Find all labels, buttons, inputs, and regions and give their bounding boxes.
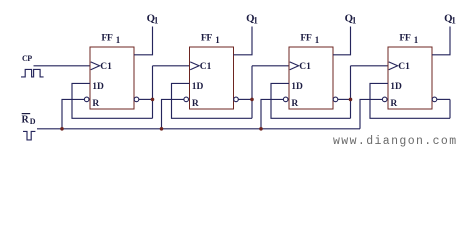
svg-text:D: D: [30, 117, 36, 126]
wire Q-bar of U2 to its junction: [238, 98, 252, 100]
wire Q output of U1 up to node Q1: [134, 27, 153, 55]
flip-flop U2 box outline: [190, 47, 234, 109]
wire Q-bar vertical of U1 feeding next clock and own 1D: [152, 66, 154, 119]
svg-text:R: R: [390, 99, 397, 109]
junction dot at Q-bar node of U3: [349, 98, 353, 102]
svg-text:1: 1: [215, 35, 220, 45]
svg-text:FF: FF: [300, 33, 311, 44]
svg-text:FF: FF: [399, 33, 410, 44]
svg-text:FF: FF: [101, 33, 112, 44]
wire RD-bar horizontal reset bus: [37, 128, 360, 130]
inversion bubble on Q-bar output of U2: [234, 97, 239, 102]
svg-text:1D: 1D: [291, 82, 303, 92]
inversion bubble on R input of U1: [84, 97, 89, 102]
svg-text:1D: 1D: [390, 82, 402, 92]
svg-text:C1: C1: [200, 62, 212, 72]
RD-bar negative pulse symbol: [23, 131, 35, 140]
svg-text:1: 1: [116, 35, 121, 45]
pin C1 clock chevron of U3: [290, 62, 299, 70]
wire R input of U4 down to reset bus: [360, 99, 382, 128]
svg-text:1: 1: [352, 15, 357, 25]
svg-text:1: 1: [154, 15, 159, 25]
junction dot on reset bus at U3: [259, 127, 263, 131]
wire Q-bar vertical of U3 feeding next clock and own 1D: [350, 66, 352, 119]
wire CP to FF1 clock input: [34, 65, 91, 67]
junction dot on reset bus at U2: [160, 127, 164, 131]
inversion bubble on R input of U3: [283, 97, 288, 102]
wire feedback Q-bar of U1 to 1D input of U1: [72, 83, 153, 118]
wire Q output of U3 up to node Q1: [333, 27, 351, 55]
svg-text:CP: CP: [22, 54, 32, 63]
inversion bubble on R input of U4: [382, 97, 387, 102]
svg-text:www.diangon.com: www.diangon.com: [333, 135, 458, 148]
junction dot at Q-bar node of U1: [151, 98, 155, 102]
wire Q-bar of U4 to its junction: [437, 98, 450, 100]
flip-flop U3 box outline: [289, 47, 333, 109]
flip-flop U4 box outline: [388, 47, 432, 109]
wire Q-bar vertical of U4 down to feedback: [449, 99, 451, 118]
wire Q output of U4 up to node Q1: [432, 27, 450, 55]
junction dot at Q-bar node of U2: [250, 98, 254, 102]
CP clock pulse waveform symbol: [21, 69, 44, 77]
pin C1 clock chevron of U2: [190, 62, 199, 70]
svg-text:R: R: [22, 115, 30, 126]
svg-text:1: 1: [451, 15, 456, 25]
svg-text:1: 1: [253, 15, 258, 25]
svg-text:FF: FF: [201, 33, 212, 44]
svg-text:C1: C1: [100, 62, 112, 72]
wire from Q-bar of U3 to clock input of U4: [351, 65, 389, 67]
svg-text:C1: C1: [299, 62, 311, 72]
svg-text:1D: 1D: [192, 82, 204, 92]
wire feedback Q-bar of U3 to 1D input of U3: [271, 83, 351, 118]
pin C1 clock chevron of U1: [91, 62, 100, 70]
svg-text:R: R: [192, 99, 199, 109]
junction dot on reset bus at U1: [60, 127, 64, 131]
inversion bubble on Q-bar output of U1: [134, 97, 139, 102]
svg-text:R: R: [291, 99, 298, 109]
wire from Q-bar of U2 to clock input of U3: [252, 65, 289, 67]
flip-flop U1 box outline: [90, 47, 134, 109]
svg-text:1D: 1D: [92, 82, 104, 92]
wire R input of U3 down to reset bus: [261, 99, 283, 128]
wire Q-bar vertical of U2 feeding next clock and own 1D: [251, 66, 253, 119]
svg-text:C1: C1: [398, 62, 410, 72]
inversion bubble on R input of U2: [184, 97, 189, 102]
wire feedback Q-bar of U4 to 1D input of U4: [370, 83, 450, 118]
inversion bubble on Q-bar output of U3: [333, 97, 338, 102]
svg-text:R: R: [92, 99, 99, 109]
wire feedback Q-bar of U2 to 1D input of U2: [172, 83, 253, 118]
pin C1 clock chevron of U4: [389, 62, 398, 70]
svg-text:1: 1: [315, 35, 320, 45]
wire from Q-bar of U1 to clock input of U2: [153, 65, 190, 67]
wire Q output of U2 up to node Q1: [234, 27, 253, 55]
wire Q-bar of U1 to its junction: [139, 98, 153, 100]
wire R input of U2 down to reset bus: [162, 99, 184, 128]
wire R input of U1 down to reset bus: [62, 99, 84, 128]
svg-text:1: 1: [414, 35, 419, 45]
inversion bubble on Q-bar output of U4: [432, 97, 437, 102]
wire Q-bar of U3 to its junction: [338, 98, 351, 100]
